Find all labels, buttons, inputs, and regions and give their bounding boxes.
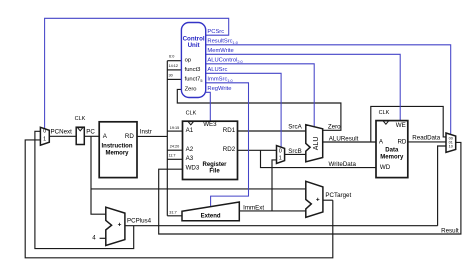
svg-text:SrcA: SrcA: [288, 124, 302, 131]
svg-text:ReadData: ReadData: [412, 134, 440, 141]
wire RD2: [238, 149, 277, 151]
wire A2 stub: [167, 149, 182, 151]
svg-text:Memory: Memory: [105, 151, 129, 157]
svg-text:RD: RD: [397, 139, 406, 146]
mux Result: [446, 133, 456, 152]
svg-text:30: 30: [168, 74, 172, 78]
svg-text:RD2: RD2: [223, 146, 236, 153]
wire op stub: [167, 60, 181, 62]
svg-text:0: 0: [43, 129, 46, 135]
svg-text:+: +: [316, 197, 320, 204]
svg-text:CLK: CLK: [186, 111, 197, 117]
svg-text:SrcB: SrcB: [288, 148, 301, 155]
svg-text:6:0: 6:0: [169, 55, 174, 59]
instruction memory: [99, 122, 137, 178]
wire funct7 stub: [167, 78, 181, 80]
svg-text:ALUResult: ALUResult: [329, 136, 359, 143]
register file: [183, 111, 238, 180]
svg-text:19:15: 19:15: [170, 126, 180, 130]
svg-text:WE3: WE3: [203, 121, 217, 128]
svg-text:Data: Data: [385, 148, 399, 154]
wire RegWrite (blue): [206, 92, 211, 121]
wire Result: [159, 142, 461, 234]
svg-text:MemWrite: MemWrite: [207, 48, 233, 54]
data memory: [376, 110, 408, 177]
wire ResultSrc (blue): [206, 45, 451, 135]
svg-text:+: +: [118, 222, 122, 229]
control unit: [181, 23, 205, 98]
svg-text:RegWrite: RegWrite: [207, 86, 231, 92]
svg-text:1: 1: [279, 156, 282, 162]
wire ALUSrc (blue): [206, 73, 281, 147]
svg-text:1: 1: [43, 137, 46, 143]
svg-text:A2: A2: [186, 146, 194, 153]
bus Instr vertical: [166, 61, 168, 216]
wire A1 stub: [167, 130, 182, 132]
mux PCNext: [40, 127, 49, 145]
svg-text:PCNext: PCNext: [51, 128, 73, 135]
svg-text:WD3: WD3: [186, 165, 200, 172]
svg-text:14:12: 14:12: [169, 64, 179, 68]
wire ImmExt: [239, 210, 305, 212]
svg-text:Unit: Unit: [188, 42, 200, 49]
svg-text:0: 0: [279, 149, 282, 155]
svg-text:31:7: 31:7: [169, 210, 176, 214]
svg-text:A3: A3: [186, 155, 194, 162]
svg-text:Result: Result: [441, 227, 459, 234]
svg-text:WE: WE: [396, 122, 406, 129]
svg-text:RD1: RD1: [223, 127, 236, 134]
svg-text:op: op: [185, 58, 191, 64]
svg-text:CLK: CLK: [75, 116, 86, 122]
wire PCPlus4: [125, 225, 438, 227]
svg-text:Memory: Memory: [380, 154, 404, 160]
wire PCTarget output: [323, 199, 333, 201]
svg-text:Zero: Zero: [185, 86, 197, 92]
wire SrcB: [285, 153, 306, 155]
adder PCPlus4: [106, 207, 125, 245]
svg-text:Instr: Instr: [140, 129, 152, 136]
svg-text:4: 4: [92, 235, 96, 242]
wire WriteData: [261, 150, 377, 167]
wire ImmSrc (blue): [206, 83, 249, 207]
wire MemWrite (blue): [206, 54, 400, 120]
wire PCNext: [49, 135, 76, 137]
wire PCSrc (blue): [45, 18, 229, 128]
wire constant 4: [100, 237, 106, 239]
wire ALUResult over Data Memory to Result mux input 00: [371, 106, 446, 142]
wire A3 stub: [167, 158, 182, 160]
svg-text:ALUControl2:0: ALUControl2:0: [207, 58, 242, 65]
svg-text:RD: RD: [125, 133, 134, 140]
wire PC feedback to PCPlus4 adder: [91, 136, 106, 214]
wire ALUResult: [323, 141, 376, 143]
svg-text:11:7: 11:7: [168, 153, 175, 157]
svg-text:CLK: CLK: [379, 110, 390, 116]
svg-text:WriteData: WriteData: [329, 161, 357, 168]
wire PCPlus4 loop to PC mux input 0: [35, 131, 134, 248]
wire ALUControl (blue): [206, 64, 314, 127]
wire funct3 stub: [167, 69, 181, 71]
svg-text:PCSrc: PCSrc: [207, 29, 224, 35]
extend unit: [182, 202, 239, 221]
svg-text:WD: WD: [380, 164, 391, 171]
svg-text:Register: Register: [202, 162, 227, 168]
mux SrcB: [277, 146, 285, 164]
wire PC to PCTarget adder: [91, 188, 306, 190]
svg-text:ALUSrc: ALUSrc: [207, 67, 227, 73]
wire ReadData: [408, 141, 446, 143]
register PC: [75, 116, 86, 145]
wire Extend input stub: [167, 215, 182, 217]
svg-text:A1: A1: [186, 127, 194, 134]
wire Zero: [177, 89, 341, 130]
wire PCTarget loop to PC mux input 1: [25, 140, 333, 258]
svg-text:Zero: Zero: [328, 123, 341, 130]
wire SrcA: [238, 130, 306, 132]
svg-text:File: File: [209, 169, 220, 175]
svg-text:Extend: Extend: [201, 213, 221, 219]
svg-text:Instruction: Instruction: [102, 143, 133, 149]
svg-text:PCPlus4: PCPlus4: [127, 218, 152, 225]
svg-text:funct3: funct3: [185, 67, 201, 73]
svg-text:PC: PC: [86, 129, 95, 136]
wire PCPlus4 up to Result mux input 10: [438, 146, 446, 226]
wire PC: [84, 135, 99, 137]
wire ImmExt branch to SrcB mux input 1: [272, 160, 277, 211]
svg-text:ALU: ALU: [313, 137, 320, 151]
adder PCTarget: [306, 181, 323, 217]
op-amp ALU: [306, 125, 323, 162]
svg-text:funct75: funct75: [185, 76, 203, 83]
svg-text:10: 10: [449, 145, 453, 149]
svg-text:ImmExt: ImmExt: [243, 205, 264, 212]
svg-text:24:20: 24:20: [170, 145, 180, 149]
wire Instr: [137, 135, 167, 137]
svg-text:PCTarget: PCTarget: [325, 192, 351, 199]
